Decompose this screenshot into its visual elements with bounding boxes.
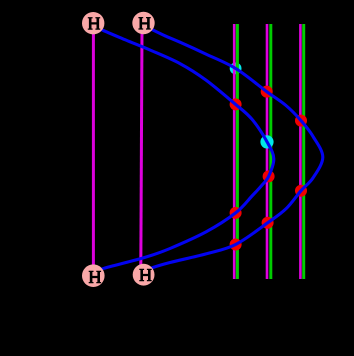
wire: pair1 green vertical [236,24,239,279]
wire: pair1 magenta vertical [233,24,236,279]
atom H2 bottom circle [133,264,155,286]
atom H1 top circle [82,12,104,34]
node: red state circle pair2 y92 [261,86,273,98]
wire: pair3 green vertical [302,24,305,279]
node: cyan state circle pair1 top (under lines) [230,63,242,75]
node: red state circle pair1 y213 [230,207,242,219]
node: cyan state circle pair2 mid (over lines) [260,135,273,148]
wire: outer blue band curve (H2 top to H2 bottom) [148,27,323,270]
node: red state circle pair1 y244 [230,239,242,251]
label H1 bottom [89,271,101,284]
node: red state circle pair3 y121 [295,115,307,127]
node: red state circle pair3 y191 [295,185,307,197]
atom H2 top circle [132,12,154,34]
wire: pair3 magenta vertical [299,24,302,279]
label H2 bottom [139,269,151,282]
node: red state circle pair1 y104 [230,98,242,110]
label H2 top [138,17,150,30]
wire: pair2 magenta vertical [266,24,269,279]
wire: inner blue band curve (H1 top to H1 bottom) [99,28,274,271]
wire: pair2 green vertical [269,24,272,279]
label H1 top [88,17,100,30]
wire: left magenta chain line 2 (x=144.5) [141,28,142,268]
node: red state circle pair2 y223 [262,217,274,229]
wire: left magenta chain line 1 (x=93) [92,26,95,272]
atom H1 bottom circle [82,264,105,287]
node: red state circle pair2 y176 [263,170,275,182]
